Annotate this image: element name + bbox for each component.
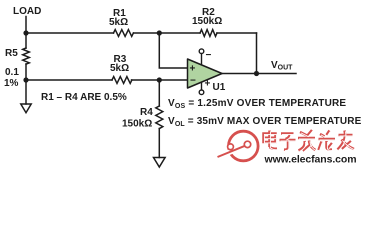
resistor R2 [200, 30, 217, 37]
wire output [222, 73, 296, 75]
node junction second-rail/R4 [157, 77, 162, 82]
watermark chinese glyph 2 [280, 134, 296, 150]
node junction LOAD/top-rail [23, 30, 28, 35]
node junction output/feedback [254, 71, 259, 76]
resistor R5 [23, 48, 30, 64]
watermark chinese glyph 3 [298, 130, 316, 151]
wire R5 bottom [25, 64, 27, 80]
wire feedback drop [256, 33, 258, 74]
svg-text:150kΩ: 150kΩ [122, 119, 152, 130]
watermark chinese glyph 4 [319, 131, 336, 151]
svg-text:LOAD: LOAD [13, 6, 41, 17]
wire second rail right [132, 79, 188, 81]
svg-text:+: + [190, 64, 196, 75]
wire plus-input drop [159, 33, 187, 68]
wire LOAD drop [25, 17, 27, 34]
svg-text:−: − [190, 76, 196, 87]
svg-text:R5: R5 [5, 48, 18, 59]
op-amp bottom power pin [201, 82, 203, 90]
watermark chinese glyph 1 [264, 131, 278, 149]
watermark logo circle [218, 131, 259, 161]
op-amp U1 body [188, 59, 223, 88]
svg-text:0.1: 0.1 [5, 67, 19, 78]
svg-text:150kΩ: 150kΩ [192, 16, 222, 27]
svg-text:5kΩ: 5kΩ [109, 17, 128, 28]
svg-text:1%: 1% [4, 78, 19, 89]
svg-text:VOS = 1.25mV OVER TEMPERATURE: VOS = 1.25mV OVER TEMPERATURE [168, 98, 346, 110]
wire top rail left [26, 32, 114, 34]
resistor R3 [112, 77, 132, 84]
resistor R4 [156, 106, 163, 129]
svg-text:5kΩ: 5kΩ [110, 63, 129, 74]
svg-text:R4: R4 [140, 107, 153, 118]
wire R5 top [25, 33, 27, 48]
ground left [21, 104, 31, 113]
svg-text:www.elecfans.com: www.elecfans.com [264, 154, 357, 166]
svg-text:U1: U1 [213, 82, 226, 93]
resistor R1 [114, 30, 134, 37]
wire top rail mid [134, 32, 201, 34]
node junction top-rail/plus-drop [157, 30, 162, 35]
wire R4 bottom [158, 129, 160, 158]
svg-text:VOL = 35mV MAX OVER TEMPERATUR: VOL = 35mV MAX OVER TEMPERATURE [168, 116, 362, 128]
op-amp top power pin [201, 54, 203, 65]
svg-text:+: + [205, 79, 211, 90]
svg-text:−: − [206, 50, 212, 61]
wire second rail left [26, 79, 112, 81]
wire left ground drop [25, 80, 27, 104]
node junction second-rail/R5 [23, 77, 28, 82]
ground R4 [154, 158, 166, 168]
watermark chinese glyph 5 [338, 131, 355, 150]
wire top rail right [217, 32, 257, 34]
wire R4 top [158, 80, 160, 106]
svg-text:R1 – R4 ARE 0.5%: R1 – R4 ARE 0.5% [41, 92, 127, 103]
